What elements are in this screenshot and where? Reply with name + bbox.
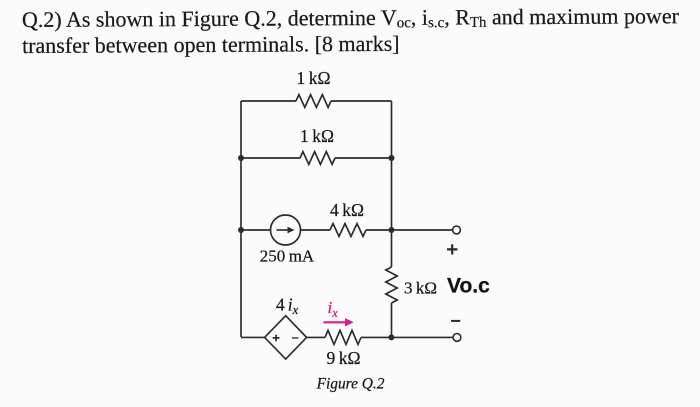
svg-text:4 ix: 4 ix [276,295,299,318]
wire: second horizontal right segment [335,157,392,159]
svg-text:Figure Q.2: Figure Q.2 [316,375,385,392]
resistor R5 9k zigzag [325,330,361,344]
dependent source 4ix diamond [265,316,307,359]
diamond plus [273,335,280,342]
wire: bottom left segment [241,336,265,338]
wire: bottom right to terminal [361,336,453,338]
node dot right second [389,155,395,161]
wire: bottom between diamond and resistor [307,336,325,338]
svg-text:4 kΩ: 4 kΩ [330,200,364,220]
wire: middle right to terminal [366,229,453,231]
question text [22,3,679,59]
svg-text:Vo.c: Vo.c [447,275,490,298]
wire: middle left segment [241,229,271,231]
svg-text:250 mA: 250 mA [260,247,315,266]
current source I1 250mA circle [271,215,301,245]
wire: 3k resistor top lead [391,230,393,267]
open terminal bottom [453,334,461,342]
resistor R second 1k zigzag [300,152,335,165]
resistor R4 3k vertical zigzag [386,267,397,303]
label plus sign [447,244,458,254]
wire: top horizontal right segment [331,100,392,102]
wire: top horizontal left segment [241,100,296,102]
wire: left vertical rail [240,101,242,337]
wire: second horizontal left segment [241,157,300,159]
wire: right vertical rail top [391,101,393,230]
svg-text:1 kΩ: 1 kΩ [300,126,334,146]
current source arrow [277,229,290,231]
wire: 3k resistor bottom lead [391,303,393,337]
current arrow ix magenta [324,321,347,323]
node dot left middle [238,227,244,233]
node dot left second [238,155,244,161]
node dot bottom right [388,334,394,340]
resistor R3 4k zigzag [330,224,366,237]
svg-text:ix: ix [328,298,339,320]
diamond minus [292,337,298,339]
svg-text:3 kΩ: 3 kΩ [404,279,437,298]
svg-text:1 kΩ: 1 kΩ [296,68,330,88]
wire: middle between source and resistor [301,229,331,231]
label minus sign [451,320,460,322]
node dot right middle [389,227,395,233]
open terminal top [453,226,461,234]
svg-text:9 kΩ: 9 kΩ [326,348,360,368]
resistor R top 1k zigzag [296,95,331,108]
